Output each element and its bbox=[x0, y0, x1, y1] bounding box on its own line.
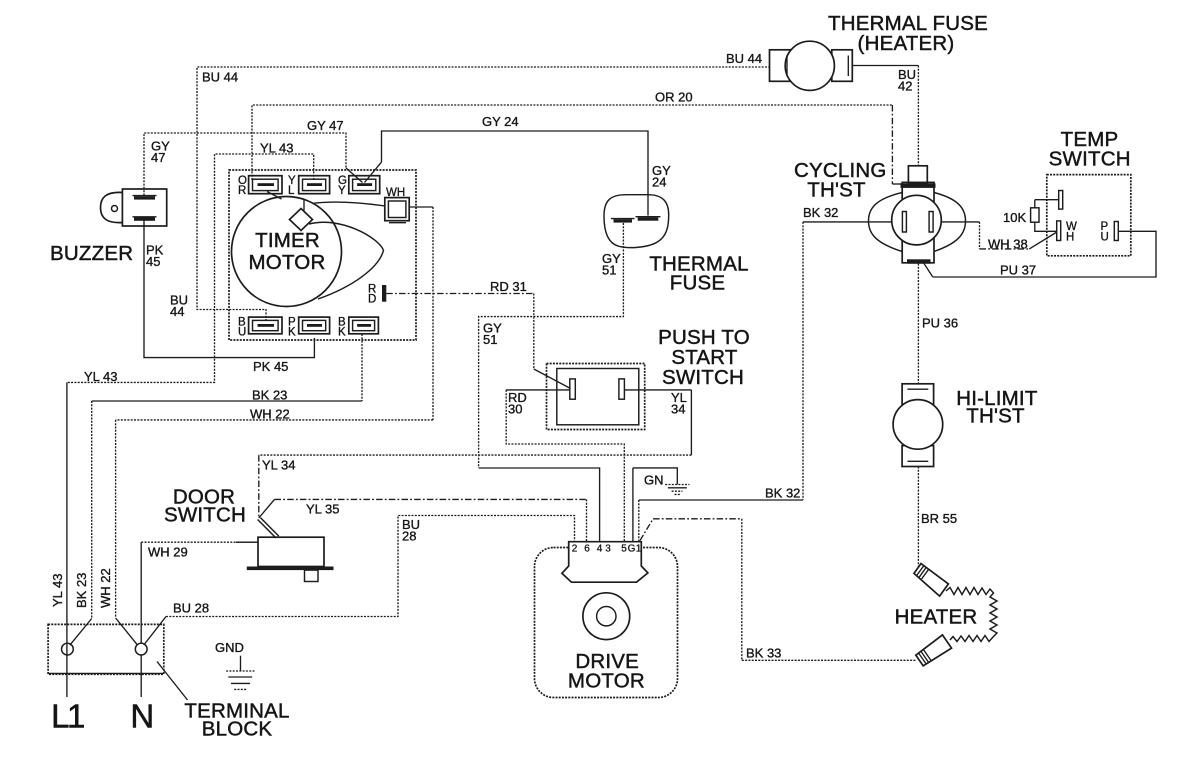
drive motor pin numbers bbox=[572, 544, 642, 555]
wire RD 30 bbox=[506, 390, 624, 542]
svg-text:BUZZER: BUZZER bbox=[50, 242, 133, 265]
svg-text:GY 47: GY 47 bbox=[307, 118, 344, 133]
svg-text:MOTOR: MOTOR bbox=[249, 251, 326, 274]
wire GY 24 bbox=[365, 114, 672, 216]
timer terminal BK bbox=[338, 317, 378, 339]
svg-text:PU 36: PU 36 bbox=[922, 316, 958, 331]
terminal N bbox=[135, 643, 147, 655]
drive motor connector bbox=[562, 542, 648, 583]
buzzer bbox=[50, 189, 167, 265]
svg-text:FUSE: FUSE bbox=[670, 272, 725, 295]
timer linkage lines bbox=[267, 192, 282, 200]
temp switch contact WH bbox=[1057, 221, 1061, 241]
timer contact RD bbox=[382, 285, 386, 302]
svg-text:WH 29: WH 29 bbox=[148, 545, 188, 560]
svg-text:H: H bbox=[1066, 232, 1074, 244]
svg-text:24: 24 bbox=[652, 175, 666, 190]
wire GN (ground) bbox=[633, 468, 690, 542]
temp switch S3 bbox=[1003, 128, 1131, 256]
svg-text:BK 23: BK 23 bbox=[74, 573, 89, 608]
svg-text:10K: 10K bbox=[1003, 210, 1026, 225]
svg-text:K: K bbox=[338, 327, 346, 339]
svg-text:TH'ST: TH'ST bbox=[966, 405, 1025, 428]
svg-text:RD 31: RD 31 bbox=[490, 279, 527, 294]
svg-text:44: 44 bbox=[170, 304, 184, 319]
wire GY 47 bbox=[144, 118, 363, 196]
svg-text:TIMER: TIMER bbox=[255, 229, 320, 252]
svg-text:4: 4 bbox=[597, 544, 603, 555]
svg-text:SWITCH: SWITCH bbox=[662, 366, 744, 389]
svg-text:PK 45: PK 45 bbox=[253, 359, 288, 374]
wire RD 31 bbox=[386, 279, 570, 389]
svg-text:30: 30 bbox=[508, 402, 522, 417]
temp switch contact PU bbox=[1114, 222, 1118, 241]
svg-text:34: 34 bbox=[671, 402, 685, 417]
svg-text:L1: L1 bbox=[51, 698, 84, 735]
wire OR 20 bbox=[252, 90, 903, 185]
svg-text:42: 42 bbox=[898, 79, 912, 94]
svg-text:N: N bbox=[130, 698, 152, 735]
svg-text:51: 51 bbox=[483, 332, 497, 347]
svg-text:6: 6 bbox=[584, 544, 590, 555]
wire GY 51 bbox=[479, 223, 624, 542]
svg-text:1: 1 bbox=[636, 544, 642, 555]
svg-text:YL 43: YL 43 bbox=[50, 574, 65, 608]
svg-text:Y: Y bbox=[338, 185, 346, 197]
svg-text:45: 45 bbox=[146, 254, 160, 269]
svg-text:G: G bbox=[628, 544, 636, 555]
wire BK 32 bbox=[639, 205, 903, 542]
svg-text:2: 2 bbox=[572, 544, 578, 555]
svg-text:GN: GN bbox=[644, 473, 664, 488]
svg-text:YL 43: YL 43 bbox=[84, 369, 118, 384]
svg-text:28: 28 bbox=[402, 529, 416, 544]
heater top terminal plug bbox=[914, 564, 948, 597]
svg-text:WH 22: WH 22 bbox=[98, 568, 113, 608]
svg-text:YL 34: YL 34 bbox=[262, 458, 296, 473]
wire PU 36 bbox=[918, 264, 958, 384]
svg-text:BK 32: BK 32 bbox=[803, 205, 838, 220]
timer motor circle bbox=[232, 197, 342, 307]
wire PK 45 bbox=[144, 220, 314, 374]
svg-text:WH: WH bbox=[386, 187, 405, 199]
timer terminal PK bbox=[288, 317, 330, 339]
wire BK 23 bbox=[70, 334, 362, 645]
svg-text:SWITCH: SWITCH bbox=[164, 504, 246, 527]
timer box bbox=[229, 170, 416, 340]
wire YL 34 bbox=[259, 390, 692, 518]
svg-text:5: 5 bbox=[621, 544, 627, 555]
door switch S2 bbox=[164, 486, 334, 582]
wire BU 42 bbox=[852, 66, 918, 166]
resistor 10K bbox=[1034, 200, 1036, 208]
terminal L1 bbox=[62, 643, 74, 655]
svg-text:47: 47 bbox=[151, 150, 165, 165]
wire BR 55 bbox=[918, 467, 957, 567]
timer terminal GY bbox=[338, 175, 380, 197]
timer terminal BU bbox=[238, 317, 282, 339]
svg-text:SWITCH: SWITCH bbox=[1049, 148, 1131, 171]
wire BK 33 bbox=[640, 519, 917, 661]
wire WH 38 bbox=[933, 222, 1057, 252]
svg-text:D: D bbox=[368, 294, 376, 306]
svg-text:L: L bbox=[288, 185, 295, 197]
timer terminal WH bbox=[385, 187, 409, 223]
svg-text:GND: GND bbox=[215, 640, 244, 655]
svg-text:GY 24: GY 24 bbox=[482, 114, 519, 129]
ground GND bbox=[215, 640, 255, 689]
svg-text:3: 3 bbox=[605, 544, 611, 555]
terminal block TB1 bbox=[48, 624, 290, 740]
svg-text:YL 35: YL 35 bbox=[306, 502, 340, 517]
svg-text:BK 23: BK 23 bbox=[252, 388, 287, 403]
svg-text:BR 55: BR 55 bbox=[921, 511, 957, 526]
drive motor M1 bbox=[535, 542, 678, 698]
timer motor U1 bbox=[229, 170, 416, 340]
svg-text:U: U bbox=[1101, 232, 1109, 244]
thermal fuse F2 bbox=[604, 195, 749, 295]
thermal fuse (heater) F1 bbox=[770, 12, 988, 90]
wire WH 22 bbox=[98, 207, 433, 645]
svg-text:BU 44: BU 44 bbox=[202, 70, 238, 85]
svg-text:TH'ST: TH'ST bbox=[807, 179, 866, 202]
wire YL 43 bbox=[50, 141, 314, 698]
wire BU 44 bbox=[170, 51, 770, 321]
svg-text:BU 44: BU 44 bbox=[726, 51, 762, 66]
heater bottom terminal plug bbox=[916, 635, 952, 666]
svg-text:R: R bbox=[238, 185, 246, 197]
svg-text:OR 20: OR 20 bbox=[655, 90, 693, 105]
svg-text:U: U bbox=[238, 327, 246, 339]
cycling thermostat TH1 bbox=[794, 159, 965, 264]
svg-text:WH 38: WH 38 bbox=[988, 237, 1028, 252]
svg-text:YL 43: YL 43 bbox=[260, 141, 294, 156]
push to start switch S1 bbox=[547, 326, 750, 430]
svg-text:WH 22: WH 22 bbox=[250, 407, 290, 422]
svg-text:BK 33: BK 33 bbox=[746, 646, 781, 661]
svg-text:BK 32: BK 32 bbox=[765, 486, 800, 501]
svg-text:HEATER: HEATER bbox=[895, 606, 978, 629]
heater element R1 bbox=[895, 564, 997, 666]
wire YL 35 bbox=[259, 499, 587, 541]
svg-text:K: K bbox=[288, 327, 296, 339]
wire WH 29 bbox=[141, 542, 258, 697]
svg-text:(HEATER): (HEATER) bbox=[858, 32, 955, 55]
wire BU 28 bbox=[144, 516, 575, 646]
svg-text:BU 28: BU 28 bbox=[173, 601, 209, 616]
svg-text:51: 51 bbox=[602, 263, 616, 278]
svg-text:BLOCK: BLOCK bbox=[202, 718, 273, 741]
svg-text:MOTOR: MOTOR bbox=[568, 670, 645, 693]
wire PU 37 bbox=[924, 231, 1156, 277]
heater coil zigzag bbox=[946, 588, 997, 642]
timer cam follower diamond bbox=[290, 209, 313, 231]
timer terminal OR bbox=[238, 175, 282, 197]
timer cam lobe bbox=[309, 222, 384, 299]
timer terminal YL bbox=[288, 175, 330, 197]
hi-limit thermostat TH2 bbox=[893, 384, 1038, 467]
svg-text:PU 37: PU 37 bbox=[1000, 263, 1036, 278]
